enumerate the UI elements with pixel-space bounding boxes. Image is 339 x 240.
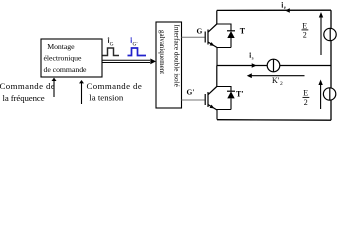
svg-text:galvaniquement: galvaniquement (158, 30, 165, 74)
wire: gate drive to G (top) (182, 36, 205, 38)
signal: gate pulse iG' (blue) (128, 48, 147, 56)
svg-text:la tension: la tension (89, 93, 124, 103)
svg-text:G: G (110, 41, 114, 47)
transistor T (top IGBT) (205, 24, 217, 48)
arrow: voltage command into control box (81, 83, 83, 105)
arrow: E/2 bottom polarity (320, 82, 322, 109)
wire: right rail (330, 10, 332, 120)
svg-text:Montage: Montage (47, 42, 75, 51)
wire: midpoint rail with output current (217, 65, 331, 67)
wire: gate drive to G' (bottom) (182, 99, 205, 101)
control box U1 (Montage electronique de commande) (41, 39, 102, 77)
wire: bottom rail (217, 119, 331, 122)
svg-text:de commande: de commande (44, 65, 88, 74)
svg-text:T': T' (236, 90, 244, 99)
wire: emitter of T' to bottom rail (217, 110, 231, 120)
wire: branch to freewheel diode of T (217, 24, 231, 31)
wire: double control bus from control box to interface (103, 59, 151, 61)
wire: collector of T to top rail (216, 11, 218, 25)
svg-text:2: 2 (304, 98, 308, 107)
svg-text:K': K' (272, 76, 280, 85)
svg-text:E: E (303, 88, 308, 97)
svg-text:G': G' (133, 41, 138, 47)
arrow: frequency command into control box (53, 80, 55, 97)
svg-text:s: s (252, 56, 254, 61)
svg-text:électronique: électronique (44, 54, 83, 63)
svg-text:E: E (302, 21, 307, 30)
svg-text:Interface double isolé: Interface double isolé (173, 25, 181, 87)
svg-text:Commande de: Commande de (0, 81, 55, 91)
wire: branch to freewheel diode of T' (217, 87, 231, 92)
svg-text:G: G (197, 27, 203, 36)
transistor T' (bottom IGBT) (205, 87, 217, 111)
svg-text:Commande de: Commande de (87, 81, 143, 91)
diode D1 (antiparallel with T) (227, 30, 235, 32)
arrow: K'2 reference direction (249, 75, 305, 77)
svg-text:G': G' (187, 88, 195, 97)
current source K'2 (circle with bar) (267, 59, 280, 72)
current arrow i_e on top rail (285, 8, 290, 13)
signal: gate pulse iG (black) (103, 48, 120, 56)
emitter arrow of T' (210, 105, 215, 109)
current arrow i_s on midpoint rail (252, 63, 257, 68)
voltage source E/2 (top) (324, 28, 336, 40)
wire: collector of T' to midpoint rail (216, 66, 218, 87)
svg-text:T: T (240, 27, 246, 36)
svg-text:la fréquence: la fréquence (3, 93, 45, 103)
svg-text:2: 2 (280, 81, 283, 87)
emitter arrow of T (210, 42, 215, 46)
svg-text:2: 2 (303, 31, 307, 40)
interface box U2 (Interface double isole galvaniquement) (156, 22, 182, 108)
wire: emitter of T to midpoint node (217, 48, 231, 66)
wire: top rail (217, 9, 331, 11)
voltage source E/2 (bottom) (323, 88, 335, 100)
diode D2 (antiparallel with T') (227, 90, 235, 92)
arrow: E/2 top polarity (320, 15, 322, 56)
